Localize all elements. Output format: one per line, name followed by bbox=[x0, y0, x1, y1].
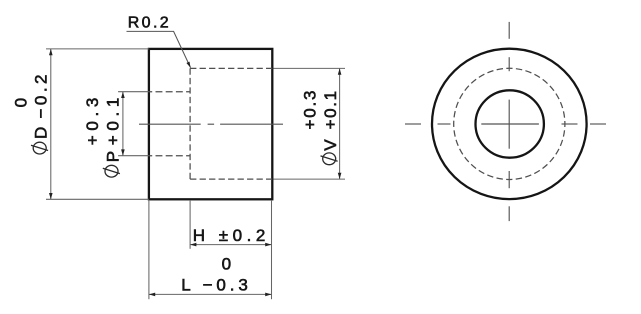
svg-text:+0.1: +0.1 bbox=[104, 98, 123, 146]
svg-text:+0.3: +0.3 bbox=[301, 91, 320, 130]
dimension H: dimension line bbox=[190, 244, 271, 246]
dimension V: dimension line bbox=[339, 68, 341, 179]
leader R0.2: arrowhead bbox=[186, 62, 190, 68]
svg-text:V: V bbox=[321, 139, 340, 151]
svg-text:0: 0 bbox=[222, 254, 231, 273]
dimension P: extension lines bbox=[118, 92, 149, 156]
label ⌀P diameter symbol bbox=[103, 165, 120, 177]
dimension H: extension lines bbox=[149, 201, 272, 300]
svg-text:R0.2: R0.2 bbox=[128, 15, 169, 32]
front view: counterbore hidden circle bbox=[454, 68, 565, 179]
centerline (side view) bbox=[139, 123, 283, 125]
hidden line: bore bottom bbox=[149, 155, 190, 157]
svg-text:L −0.3: L −0.3 bbox=[181, 276, 248, 295]
part body outline (side view) bbox=[149, 49, 272, 199]
svg-text:+0.3: +0.3 bbox=[83, 98, 102, 146]
dimension D: arrowheads bbox=[49, 49, 53, 199]
dimension P: dimension line bbox=[122, 92, 124, 156]
svg-text:0: 0 bbox=[12, 98, 31, 107]
leader R0.2: leader line bbox=[127, 31, 191, 67]
hidden line: counterbore step bbox=[189, 68, 191, 179]
hidden line: counterbore top bbox=[190, 67, 272, 69]
front view: horizontal centerline bbox=[405, 123, 606, 125]
dimension L: arrowheads bbox=[149, 293, 272, 297]
dimension V: arrowheads bbox=[338, 68, 342, 179]
dimension D: extension lines bbox=[46, 49, 149, 199]
dimension P: arrowheads bbox=[121, 92, 125, 156]
svg-text:P: P bbox=[104, 151, 123, 162]
hidden line: bore top bbox=[149, 91, 190, 93]
dimension D: dimension line bbox=[50, 49, 52, 199]
front view: vertical centerline bbox=[508, 22, 510, 221]
svg-text:D: D bbox=[32, 127, 51, 139]
hidden line: counterbore bottom bbox=[190, 178, 272, 180]
front view: bore circle bbox=[476, 90, 544, 157]
dimension V: extension lines bbox=[274, 68, 346, 179]
front view: outer circle bbox=[432, 49, 587, 199]
dimension L: dimension line bbox=[149, 293, 272, 295]
label ⌀D diameter symbol bbox=[31, 142, 48, 154]
dimension H: arrowheads bbox=[190, 243, 271, 247]
svg-text:−0.2: −0.2 bbox=[32, 75, 51, 119]
svg-text:H ±0.2: H ±0.2 bbox=[193, 226, 265, 245]
label ⌀V diameter symbol bbox=[321, 153, 338, 165]
svg-text:+0.1: +0.1 bbox=[321, 91, 340, 130]
